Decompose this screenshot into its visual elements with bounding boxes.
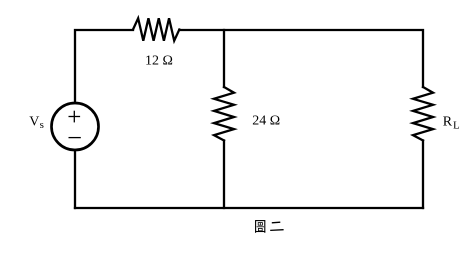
svg-text:V: V bbox=[29, 115, 39, 130]
svg-text:R: R bbox=[443, 115, 453, 130]
svg-text:24 Ω: 24 Ω bbox=[252, 114, 280, 129]
svg-text:12 Ω: 12 Ω bbox=[145, 54, 173, 69]
svg-text:s: s bbox=[40, 119, 44, 131]
svg-text:L: L bbox=[453, 119, 460, 131]
